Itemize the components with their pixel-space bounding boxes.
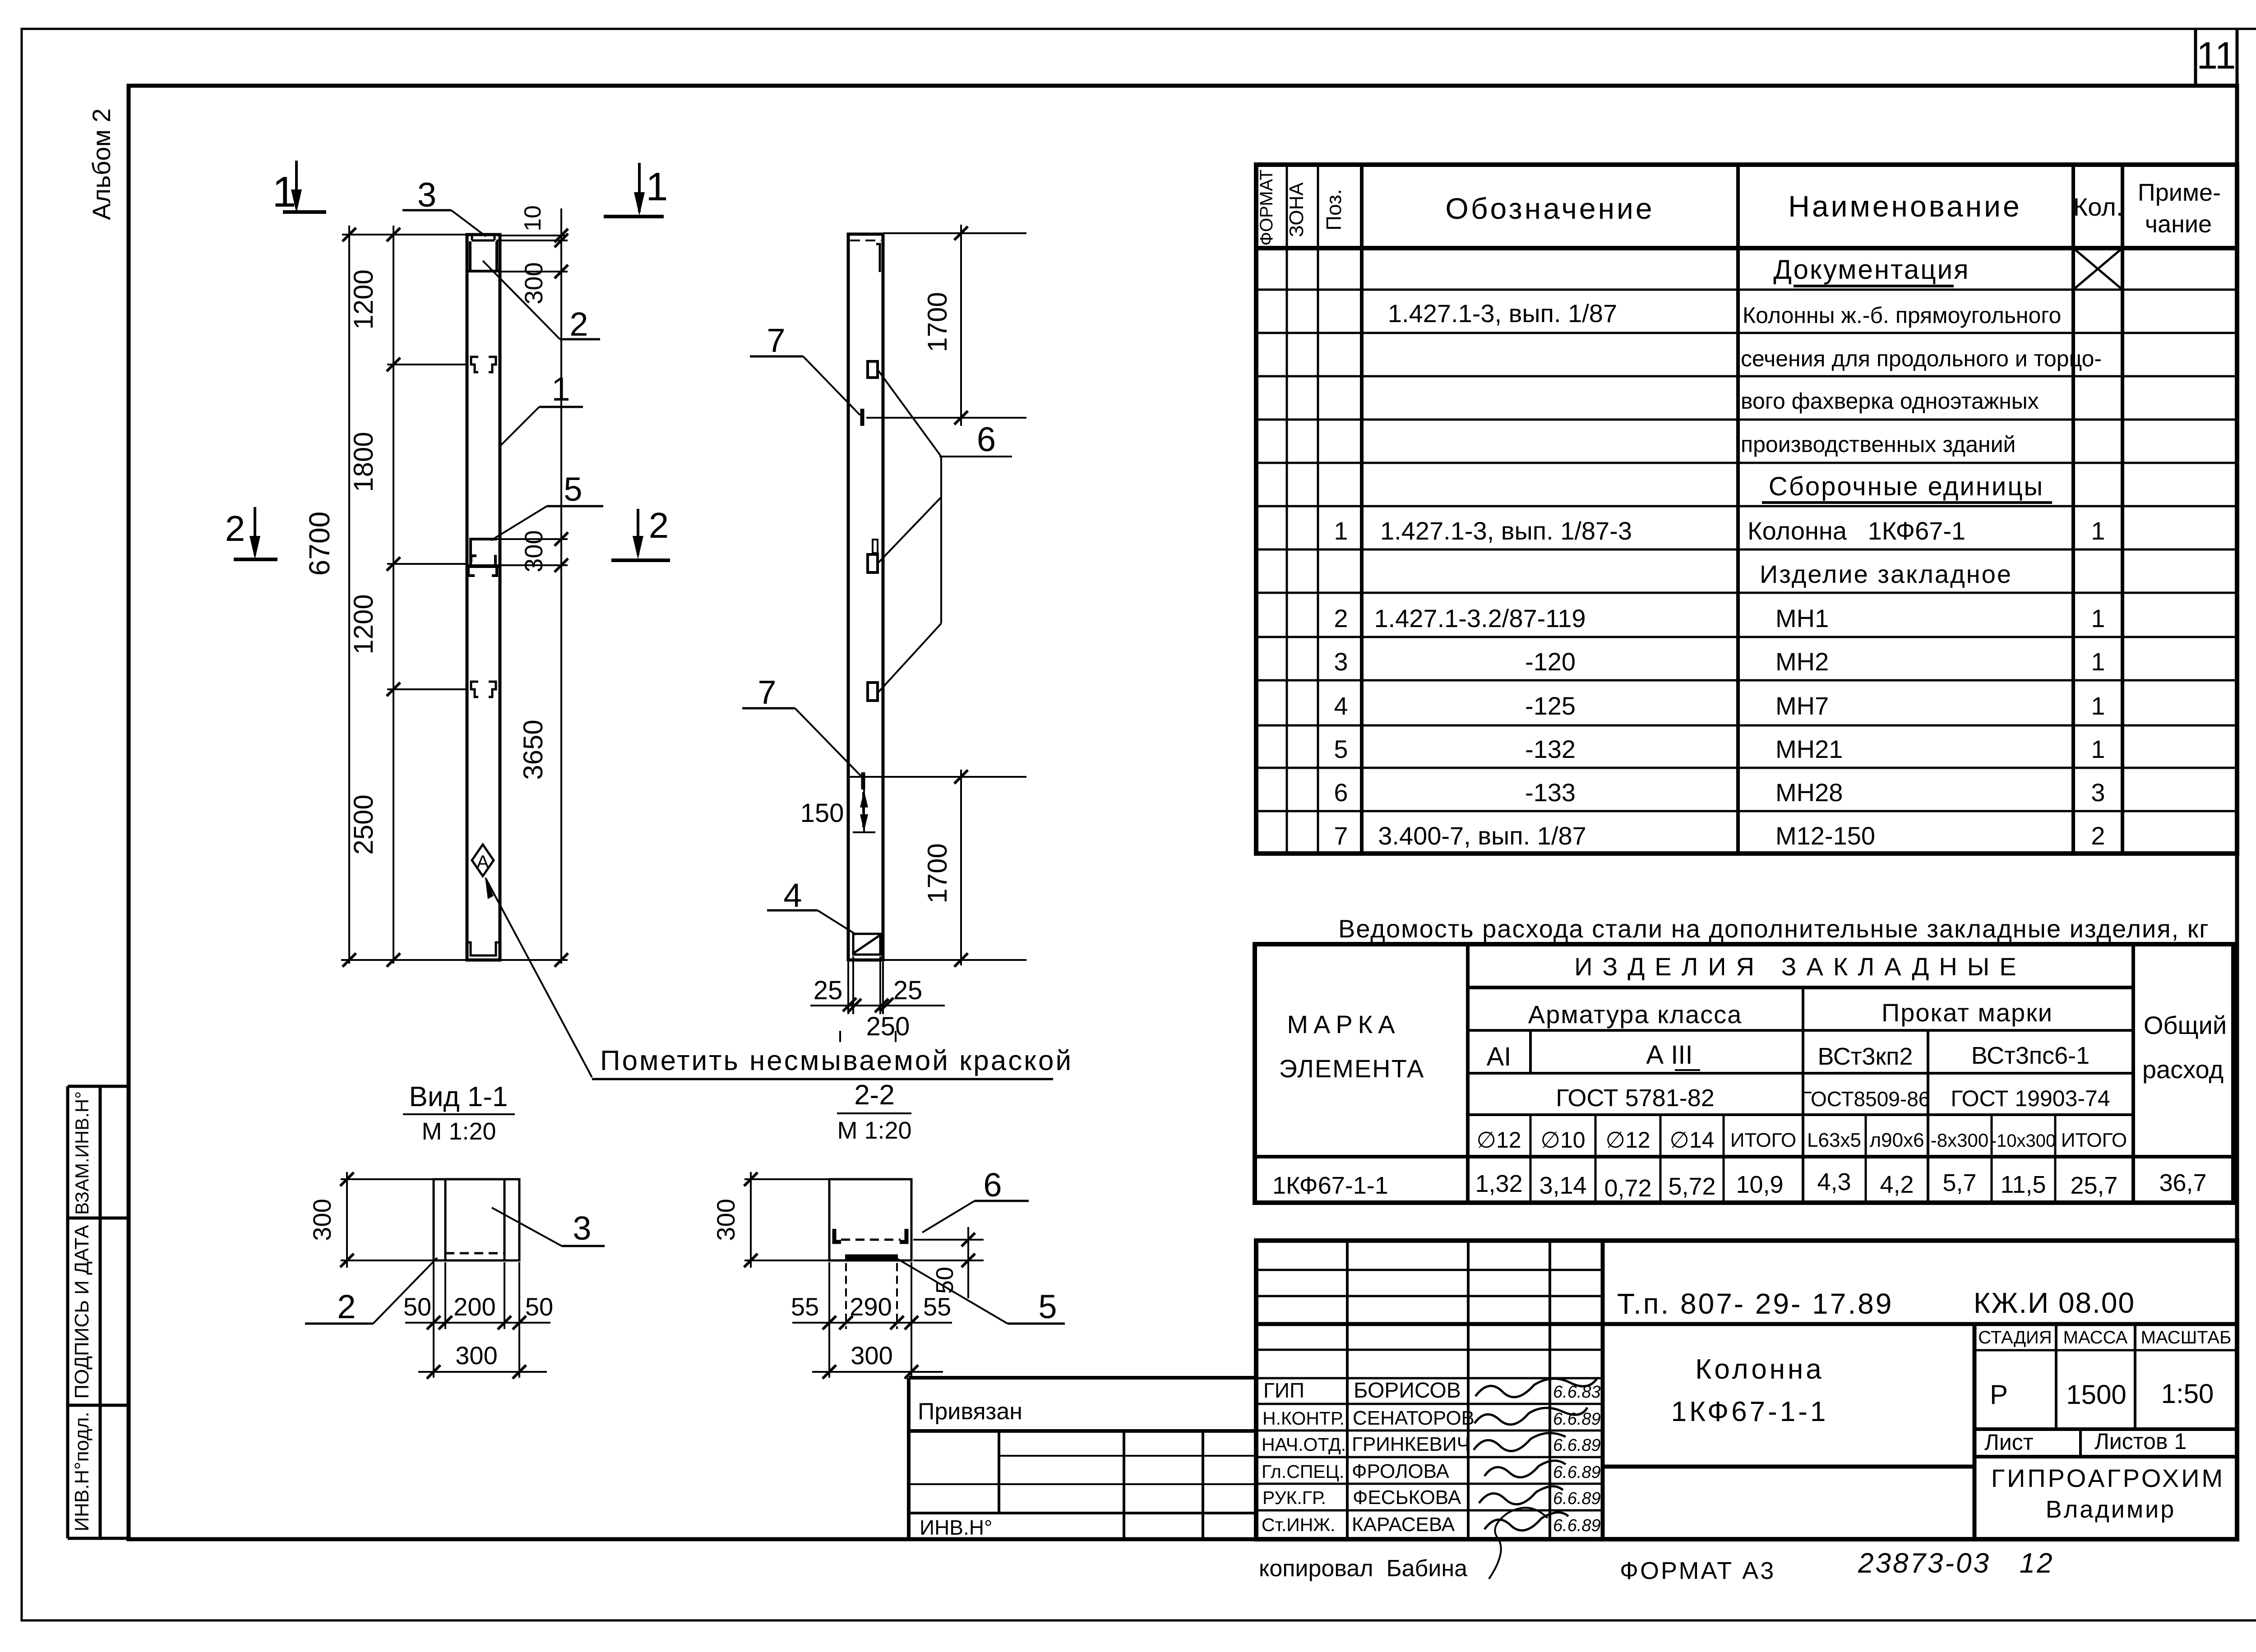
svg-text:300: 300 bbox=[455, 1341, 497, 1370]
privyazan block bbox=[909, 1378, 1256, 1539]
svg-text:Гл.СПЕЦ.: Гл.СПЕЦ. bbox=[1262, 1461, 1344, 1482]
svg-text:5,7: 5,7 bbox=[1942, 1169, 1976, 1196]
view 1-1 title bbox=[403, 1081, 515, 1145]
svg-text:-10х300: -10х300 bbox=[1991, 1131, 2056, 1151]
svg-text:М12-150: М12-150 bbox=[1775, 821, 1875, 850]
svg-text:Ст.ИНЖ.: Ст.ИНЖ. bbox=[1262, 1514, 1336, 1535]
top plate MH2 pos3 bbox=[472, 235, 495, 240]
svg-text:300: 300 bbox=[308, 1199, 336, 1241]
label 7 upper callout bbox=[750, 322, 860, 415]
svg-text:6700: 6700 bbox=[303, 512, 336, 576]
svg-text:1.427.1-3, вып. 1/87: 1.427.1-3, вып. 1/87 bbox=[1388, 299, 1617, 328]
quality mark diamond A bbox=[472, 844, 494, 876]
signature squiggles bbox=[1474, 1378, 1597, 1579]
svg-text:Лист: Лист bbox=[1984, 1430, 2034, 1455]
svg-text:Прокат марки: Прокат марки bbox=[1882, 998, 2053, 1027]
view2 extension lines bbox=[848, 233, 1026, 960]
svg-text:МН21: МН21 bbox=[1775, 735, 1843, 763]
svg-text:2: 2 bbox=[649, 505, 669, 545]
svg-text:МАРКА: МАРКА bbox=[1287, 1010, 1400, 1038]
svg-text:вого фахверка одноэтажных: вого фахверка одноэтажных bbox=[1741, 388, 2039, 414]
dimension right 10 300 300 3650 bbox=[518, 205, 568, 967]
svg-text:6.6.89: 6.6.89 bbox=[1553, 1516, 1601, 1535]
svg-text:7: 7 bbox=[1334, 821, 1348, 850]
svg-text:∅12: ∅12 bbox=[1605, 1127, 1650, 1153]
specification table grid bbox=[1256, 165, 2237, 854]
svg-text:Альбом 2: Альбом 2 bbox=[87, 108, 116, 220]
label 4 callout bbox=[767, 877, 856, 935]
section 1-1 dim 300 bottom bbox=[418, 1341, 547, 1379]
svg-text:0,72: 0,72 bbox=[1604, 1175, 1651, 1202]
bolt mark 7 lower bbox=[861, 772, 865, 789]
svg-text:1200: 1200 bbox=[348, 269, 379, 329]
column side elevation view2 outline bbox=[848, 234, 883, 960]
svg-text:-133: -133 bbox=[1525, 778, 1576, 807]
svg-text:4,3: 4,3 bbox=[1817, 1168, 1851, 1195]
label 5 callout bbox=[491, 471, 603, 540]
svg-text:25,7: 25,7 bbox=[2070, 1172, 2117, 1199]
label 2 callout bbox=[483, 261, 600, 343]
svg-text:10: 10 bbox=[520, 205, 546, 231]
svg-text:5: 5 bbox=[564, 471, 582, 508]
svg-text:СТАДИЯ: СТАДИЯ bbox=[1978, 1328, 2052, 1347]
svg-text:2: 2 bbox=[1334, 604, 1348, 632]
svg-text:ГРИНКЕВИЧ: ГРИНКЕВИЧ bbox=[1352, 1433, 1470, 1455]
svg-text:2500: 2500 bbox=[348, 794, 379, 854]
svg-text:250: 250 bbox=[866, 1012, 910, 1041]
svg-text:Арматура класса: Арматура класса bbox=[1528, 1000, 1743, 1029]
section mark 2 right bbox=[611, 505, 670, 560]
svg-text:ИТОГО: ИТОГО bbox=[2061, 1129, 2127, 1151]
svg-text:4: 4 bbox=[783, 877, 802, 914]
section 2-2 square bbox=[829, 1179, 911, 1260]
dimension chain 1200 1800 1200 2500 bbox=[348, 226, 400, 967]
svg-text:3.400-7, вып. 1/87: 3.400-7, вып. 1/87 bbox=[1378, 821, 1586, 850]
svg-text:50: 50 bbox=[525, 1292, 553, 1321]
section 1-1 square bbox=[434, 1179, 519, 1260]
svg-text:1700: 1700 bbox=[922, 843, 952, 903]
svg-text:∅14: ∅14 bbox=[1669, 1127, 1714, 1153]
svg-text:2-2: 2-2 bbox=[854, 1080, 895, 1111]
svg-text:Колонна 1КФ67-1: Колонна 1КФ67-1 bbox=[1747, 517, 1965, 545]
svg-text:1: 1 bbox=[2091, 647, 2105, 676]
svg-text:Н.КОНТР.: Н.КОНТР. bbox=[1262, 1408, 1345, 1429]
svg-text:-125: -125 bbox=[1525, 692, 1576, 720]
svg-text:М 1:20: М 1:20 bbox=[837, 1117, 911, 1144]
svg-text:АI: АI bbox=[1487, 1042, 1512, 1071]
svg-text:ВСт3пс6-1: ВСт3пс6-1 bbox=[1971, 1042, 2090, 1069]
svg-text:6.6.89: 6.6.89 bbox=[1553, 1489, 1601, 1508]
embed lower box bbox=[868, 683, 878, 701]
label 6 callout bracket bbox=[878, 371, 1012, 692]
svg-text:1: 1 bbox=[551, 370, 570, 408]
svg-text:ФЕСЬКОВА: ФЕСЬКОВА bbox=[1353, 1486, 1461, 1509]
svg-text:А: А bbox=[476, 851, 489, 872]
svg-text:Обозначение: Обозначение bbox=[1445, 192, 1654, 225]
svg-text:290: 290 bbox=[850, 1292, 892, 1321]
svg-text:ГОСТ 19903-74: ГОСТ 19903-74 bbox=[1951, 1086, 2110, 1111]
svg-text:Наименование: Наименование bbox=[1788, 189, 2022, 223]
svg-text:7: 7 bbox=[758, 674, 776, 711]
svg-text:копировал Бабина: копировал Бабина bbox=[1259, 1555, 1467, 1582]
leader from diamond to paint note bbox=[485, 878, 592, 1077]
svg-text:ИТОГО: ИТОГО bbox=[1730, 1129, 1796, 1151]
embed hooks at 1200 level bbox=[471, 357, 496, 372]
section mark 1 left bbox=[272, 161, 326, 216]
svg-text:300: 300 bbox=[851, 1341, 892, 1370]
svg-text:ГОСТ 5781-82: ГОСТ 5781-82 bbox=[1556, 1084, 1715, 1112]
svg-text:1700: 1700 bbox=[922, 292, 952, 352]
section mark 1 right bbox=[604, 163, 668, 217]
section 1-1 bottom dims 50 200 50 bbox=[403, 1262, 553, 1378]
svg-text:36,7: 36,7 bbox=[2159, 1169, 2206, 1196]
svg-text:Р: Р bbox=[1990, 1380, 2008, 1410]
steel table grid bbox=[1255, 944, 2233, 1203]
svg-text:1: 1 bbox=[2091, 517, 2105, 545]
embed hooks at lower level bbox=[471, 682, 496, 697]
extension lines view1 bbox=[341, 235, 568, 960]
section 2-2 bottom dims 55 290 55 bbox=[791, 1262, 952, 1378]
svg-text:А III: А III bbox=[1646, 1040, 1692, 1070]
embed middle box with tab bbox=[873, 540, 878, 553]
embed MH1 pos2 box bbox=[467, 241, 500, 271]
svg-text:МАССА: МАССА bbox=[2063, 1328, 2128, 1347]
svg-text:300: 300 bbox=[712, 1199, 740, 1241]
svg-text:6.6.89: 6.6.89 bbox=[1553, 1463, 1601, 1482]
svg-text:3650: 3650 bbox=[518, 720, 548, 780]
svg-text:КЖ.И 08.00: КЖ.И 08.00 bbox=[1974, 1287, 2135, 1319]
svg-text:1.427.1-3, вып. 1/87-3: 1.427.1-3, вып. 1/87-3 bbox=[1380, 517, 1632, 545]
svg-text:1: 1 bbox=[2091, 735, 2105, 763]
bottom embed MH7 pos4 bbox=[853, 934, 880, 955]
svg-text:1,32: 1,32 bbox=[1475, 1170, 1522, 1197]
svg-text:3: 3 bbox=[1334, 647, 1348, 676]
svg-text:6: 6 bbox=[977, 420, 996, 459]
svg-text:МН2: МН2 bbox=[1775, 647, 1829, 676]
spec crossed cell bbox=[2073, 248, 2122, 290]
svg-text:М 1:20: М 1:20 bbox=[421, 1118, 496, 1145]
svg-text:5,72: 5,72 bbox=[1668, 1173, 1715, 1200]
svg-text:НАЧ.ОТД.: НАЧ.ОТД. bbox=[1262, 1434, 1346, 1455]
dimension 1700 lower bbox=[922, 770, 968, 967]
svg-text:ГИПРОАГРОХИМ: ГИПРОАГРОХИМ bbox=[1991, 1464, 2225, 1492]
svg-text:-120: -120 bbox=[1525, 647, 1576, 676]
svg-text:L63х5: L63х5 bbox=[1807, 1129, 1861, 1151]
dashed top line view2 bbox=[850, 240, 881, 241]
svg-text:55: 55 bbox=[791, 1292, 819, 1321]
svg-text:25: 25 bbox=[814, 976, 843, 1005]
bottom channel embed bbox=[467, 942, 500, 955]
svg-text:Пометить несмываемой краской: Пометить несмываемой краской bbox=[600, 1045, 1073, 1076]
svg-text:5: 5 bbox=[1038, 1288, 1057, 1325]
dimension 6700 line bbox=[303, 226, 356, 967]
svg-text:Документация: Документация bbox=[1773, 254, 1969, 285]
svg-text:1: 1 bbox=[646, 164, 668, 209]
svg-text:МН7: МН7 bbox=[1775, 692, 1829, 720]
dimension 150 bbox=[800, 789, 875, 832]
svg-text:11: 11 bbox=[2196, 34, 2236, 77]
dimension 1700 upper bbox=[922, 225, 968, 426]
bolt mark 7 upper bbox=[860, 409, 864, 426]
section 2-2 plate bar pos5 bbox=[845, 1255, 898, 1260]
svg-text:ИНВ.Н°подл.: ИНВ.Н°подл. bbox=[71, 1412, 93, 1531]
svg-text:Т.п. 807- 29- 17.89: Т.п. 807- 29- 17.89 bbox=[1617, 1287, 1893, 1320]
svg-text:сечения для продольного и торц: сечения для продольного и торцо- bbox=[1741, 346, 2102, 371]
svg-text:3,14: 3,14 bbox=[1539, 1172, 1586, 1199]
svg-text:Сборочные единицы: Сборочные единицы bbox=[1769, 472, 2044, 501]
svg-text:200: 200 bbox=[453, 1292, 495, 1321]
svg-text:25: 25 bbox=[893, 976, 923, 1005]
svg-text:2: 2 bbox=[2091, 821, 2105, 850]
section mark 2 left bbox=[225, 507, 277, 559]
svg-text:-8х300: -8х300 bbox=[1931, 1130, 1988, 1151]
section 2-2 label 6 bbox=[922, 1166, 1029, 1232]
svg-text:КАРАСЕВА: КАРАСЕВА bbox=[1352, 1514, 1455, 1536]
svg-text:МН28: МН28 bbox=[1775, 778, 1843, 807]
column 1KF67 elevation view outline bbox=[467, 235, 500, 960]
svg-text:1500: 1500 bbox=[2066, 1380, 2126, 1410]
svg-text:50: 50 bbox=[403, 1292, 431, 1321]
left stamp block bbox=[68, 1086, 129, 1538]
svg-text:Кол.: Кол. bbox=[2073, 193, 2123, 221]
svg-text:Ведомость расхода стали на доп: Ведомость расхода стали на дополнительны… bbox=[1338, 914, 2210, 943]
svg-text:300: 300 bbox=[519, 530, 548, 572]
svg-text:2: 2 bbox=[225, 508, 245, 549]
svg-text:4,2: 4,2 bbox=[1880, 1171, 1914, 1198]
svg-text:1.427.1-3.2/87-119: 1.427.1-3.2/87-119 bbox=[1374, 604, 1586, 632]
svg-text:2: 2 bbox=[569, 305, 588, 343]
label 1 callout bbox=[500, 370, 583, 446]
bottom dimensions 25 250 25 bbox=[810, 956, 945, 1042]
svg-text:ВЗАМ.ИНВ.Н°: ВЗАМ.ИНВ.Н° bbox=[71, 1091, 92, 1215]
svg-text:ПОДПИСЬ И ДАТА: ПОДПИСЬ И ДАТА bbox=[71, 1225, 93, 1399]
paint note text bbox=[592, 1045, 1073, 1079]
svg-text:∅10: ∅10 bbox=[1540, 1127, 1585, 1153]
section 2-2 label 5 bbox=[897, 1259, 1065, 1325]
svg-text:ФРОЛОВА: ФРОЛОВА bbox=[1352, 1460, 1450, 1482]
svg-text:1: 1 bbox=[2091, 604, 2105, 632]
svg-text:1КФ67-1-1: 1КФ67-1-1 bbox=[1671, 1396, 1829, 1427]
svg-text:-132: -132 bbox=[1525, 735, 1576, 763]
svg-text:1: 1 bbox=[1334, 517, 1348, 545]
svg-text:3: 3 bbox=[417, 176, 436, 214]
svg-text:ГОСТ8509-86: ГОСТ8509-86 bbox=[1801, 1087, 1930, 1111]
svg-text:1:50: 1:50 bbox=[2161, 1379, 2214, 1409]
svg-text:150: 150 bbox=[800, 798, 844, 828]
svg-text:6.6.83: 6.6.83 bbox=[1553, 1383, 1601, 1402]
svg-text:1800: 1800 bbox=[348, 432, 379, 492]
section 1-1 dim 300 left bbox=[308, 1172, 434, 1268]
top notch view2 bbox=[876, 244, 880, 272]
svg-text:ФОРМАТ: ФОРМАТ bbox=[1257, 169, 1276, 245]
svg-text:СЕНАТОРОВ: СЕНАТОРОВ bbox=[1353, 1407, 1475, 1429]
svg-text:Колонны ж.-б. прямоугольного: Колонны ж.-б. прямоугольного bbox=[1743, 303, 2061, 328]
svg-text:1200: 1200 bbox=[348, 594, 379, 654]
svg-text:ФОРМАТ А3: ФОРМАТ А3 bbox=[1620, 1557, 1775, 1584]
svg-text:23873-03 12: 23873-03 12 bbox=[1858, 1548, 2054, 1579]
svg-text:БОРИСОВ: БОРИСОВ bbox=[1354, 1379, 1461, 1403]
section 2-2 dim 300 left bbox=[712, 1172, 829, 1268]
svg-text:6.6.89: 6.6.89 bbox=[1553, 1436, 1601, 1455]
svg-text:расход: расход bbox=[2142, 1055, 2224, 1084]
svg-text:ИЗДЕЛИЯ ЗАКЛАДНЫЕ: ИЗДЕЛИЯ ЗАКЛАДНЫЕ bbox=[1574, 952, 2026, 981]
svg-text:ЭЛЕМЕНТА: ЭЛЕМЕНТА bbox=[1279, 1054, 1425, 1083]
section 1-1 label 3 bbox=[492, 1208, 605, 1247]
svg-text:ИНВ.Н°: ИНВ.Н° bbox=[920, 1516, 992, 1539]
svg-text:3: 3 bbox=[2091, 778, 2105, 807]
svg-text:3: 3 bbox=[573, 1209, 591, 1247]
view 2-2 title bbox=[837, 1080, 912, 1144]
svg-text:6: 6 bbox=[1334, 778, 1348, 807]
svg-text:Изделие закладное: Изделие закладное bbox=[1760, 560, 2012, 588]
svg-text:10,9: 10,9 bbox=[1736, 1171, 1783, 1198]
svg-text:55: 55 bbox=[923, 1292, 951, 1321]
svg-text:11,5: 11,5 bbox=[2000, 1171, 2046, 1198]
svg-text:∅12: ∅12 bbox=[1476, 1127, 1521, 1153]
embed plate M12-150 upper box bbox=[868, 361, 878, 378]
label 3 callout bbox=[402, 176, 486, 236]
svg-text:6.6.89: 6.6.89 bbox=[1553, 1410, 1601, 1429]
svg-text:Вид 1-1: Вид 1-1 bbox=[409, 1081, 508, 1112]
svg-text:300: 300 bbox=[519, 262, 548, 304]
svg-text:Колонна: Колонна bbox=[1695, 1354, 1824, 1385]
svg-text:чание: чание bbox=[2145, 211, 2212, 238]
embed MH21 pos5 box bbox=[467, 539, 500, 576]
svg-text:Поз.: Поз. bbox=[1322, 189, 1345, 231]
svg-text:6: 6 bbox=[983, 1166, 1002, 1204]
section 1-1 label 2 bbox=[305, 1258, 437, 1325]
svg-text:Общий: Общий bbox=[2144, 1011, 2227, 1039]
svg-text:1: 1 bbox=[2091, 692, 2105, 720]
svg-text:5: 5 bbox=[1334, 735, 1348, 763]
svg-text:производственных зданий: производственных зданий bbox=[1741, 432, 2016, 457]
section 2-2 dim 300 bottom bbox=[812, 1341, 943, 1379]
svg-text:ЗОНА: ЗОНА bbox=[1285, 182, 1308, 237]
svg-text:Привязан: Привязан bbox=[918, 1398, 1022, 1425]
svg-text:МАСШТАБ: МАСШТАБ bbox=[2141, 1328, 2232, 1347]
title block main frame bbox=[1256, 1241, 2237, 1539]
svg-text:Листов 1: Листов 1 bbox=[2094, 1429, 2187, 1454]
svg-text:л90х6: л90х6 bbox=[1869, 1129, 1924, 1151]
svg-text:1КФ67-1-1: 1КФ67-1-1 bbox=[1272, 1172, 1388, 1199]
page number box bbox=[2194, 29, 2197, 86]
svg-text:ВСт3кп2: ВСт3кп2 bbox=[1818, 1043, 1913, 1070]
svg-text:4: 4 bbox=[1334, 692, 1348, 720]
svg-text:Владимир: Владимир bbox=[2046, 1496, 2176, 1523]
svg-text:РУК.ГР.: РУК.ГР. bbox=[1262, 1487, 1326, 1508]
svg-text:Приме-: Приме- bbox=[2138, 179, 2221, 206]
section 2-2 dim 50 right bbox=[913, 1227, 984, 1298]
label 7 lower callout bbox=[742, 674, 861, 776]
svg-text:2: 2 bbox=[337, 1288, 356, 1325]
section 2-2 corner angles bbox=[834, 1229, 841, 1242]
svg-text:ГИП: ГИП bbox=[1263, 1379, 1304, 1402]
svg-text:МН1: МН1 bbox=[1775, 604, 1829, 632]
svg-text:7: 7 bbox=[767, 322, 785, 359]
